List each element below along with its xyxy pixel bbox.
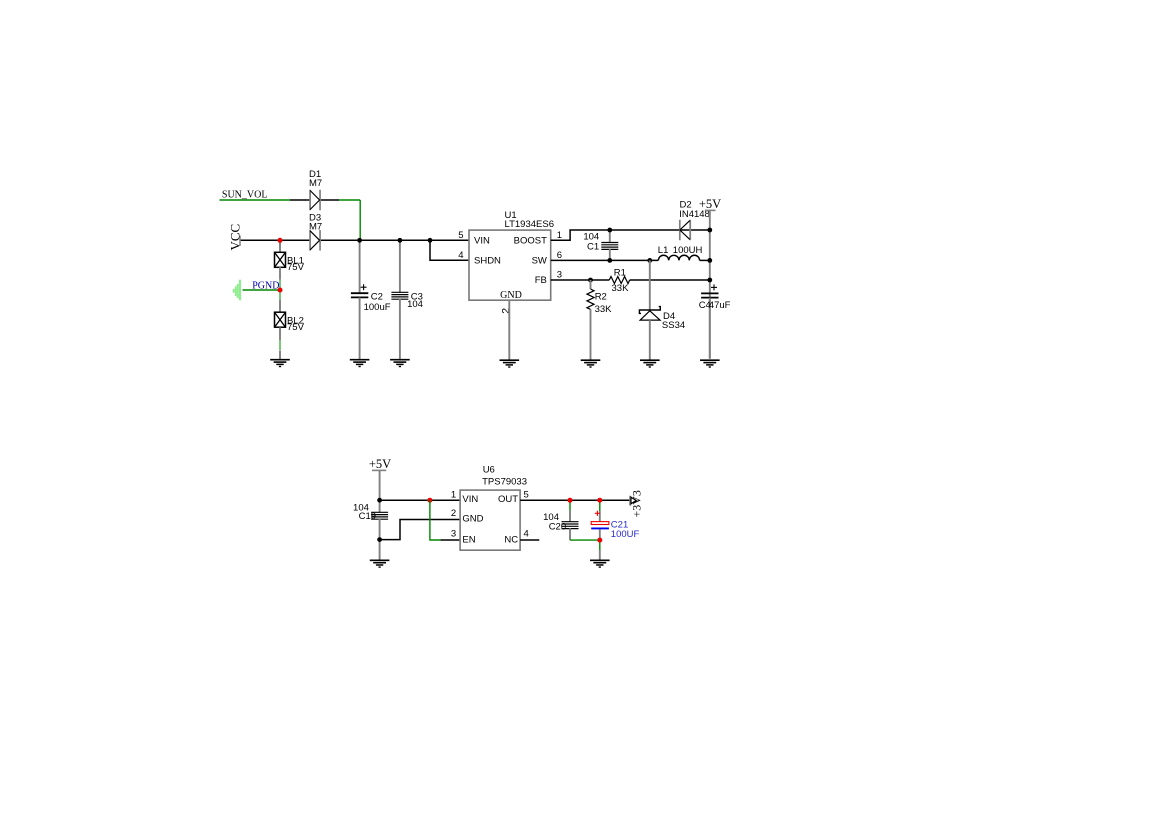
svg-text:M7: M7 [309,178,322,189]
svg-text:GND: GND [462,513,483,524]
svg-text:+3V3: +3V3 [629,490,643,517]
svg-text:2: 2 [451,508,456,519]
svg-text:BOOST: BOOST [514,236,547,247]
svg-text:47uF: 47uF [709,300,731,311]
svg-text:GND: GND [500,290,522,301]
svg-text:75V: 75V [287,322,305,333]
svg-text:104: 104 [407,299,423,310]
svg-text:4: 4 [524,529,529,540]
svg-text:FB: FB [535,275,547,286]
svg-text:C20: C20 [549,521,566,532]
svg-text:6: 6 [557,250,562,261]
svg-text:PGND: PGND [252,280,279,291]
svg-text:SHDN: SHDN [474,255,501,266]
svg-text:OUT: OUT [498,494,518,505]
svg-text:100uF: 100uF [364,302,391,313]
svg-text:100UF: 100UF [611,529,640,540]
svg-text:VIN: VIN [462,494,478,505]
svg-text:R2: R2 [595,291,607,302]
svg-text:TPS79033: TPS79033 [482,476,527,487]
svg-text:U6: U6 [483,465,495,476]
svg-text:NC: NC [504,535,518,546]
svg-text:3: 3 [451,529,456,540]
svg-text:4: 4 [458,250,463,261]
svg-text:33K: 33K [595,304,613,315]
svg-text:C1: C1 [587,242,599,253]
svg-text:3: 3 [557,269,562,280]
svg-text:33K: 33K [612,283,630,294]
svg-text:5: 5 [458,230,463,241]
svg-text:R1: R1 [614,267,626,278]
svg-text:100UH: 100UH [673,245,703,256]
svg-text:SS34: SS34 [662,320,685,331]
svg-text:SW: SW [532,255,547,266]
svg-text:+5V: +5V [369,457,391,471]
svg-text:VCC: VCC [228,224,243,251]
svg-text:C19: C19 [359,511,376,522]
svg-text:1: 1 [451,489,456,500]
svg-text:L1: L1 [658,245,669,256]
svg-text:M7: M7 [309,222,322,233]
svg-text:+5V: +5V [699,197,721,211]
svg-text:LT1934ES6: LT1934ES6 [505,219,554,230]
svg-text:SUN_VOL: SUN_VOL [222,190,268,201]
svg-text:EN: EN [462,535,475,546]
svg-text:5: 5 [524,489,529,500]
svg-text:VIN: VIN [474,236,490,247]
svg-text:75V: 75V [287,262,305,273]
